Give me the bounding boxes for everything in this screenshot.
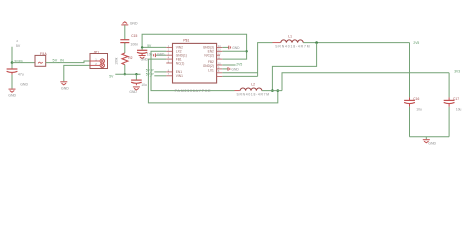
wire LX2 down to L2 [151, 51, 235, 90]
ground input [9, 88, 16, 90]
wire VIN2 overhead to EN2 [142, 34, 247, 59]
pin names right [203, 46, 214, 73]
svg-text:2: 2 [16, 39, 18, 43]
pin numbers left [168, 46, 170, 76]
svg-text:P$1: P$1 [183, 39, 189, 43]
wire 3V3 rail down [448, 73, 450, 98]
pin pad 2 JP1 [100, 63, 104, 67]
svg-text:5V_P: 5V_P [146, 72, 154, 76]
net stub EN1 [154, 71, 166, 73]
pin numbers right [218, 46, 221, 73]
net stub VIN1 [154, 75, 166, 77]
capacitor C17 10u [448, 97, 450, 100]
wire L1 to 2V5 corner [303, 42, 409, 44]
capacitor 47u input [11, 63, 13, 69]
svg-text:L1: L1 [288, 34, 292, 38]
ground above C15 [121, 24, 128, 26]
svg-text:5V: 5V [109, 74, 114, 78]
capacitor C16 10u [409, 97, 411, 100]
pin pad 1 JP1 [100, 59, 104, 63]
pin names left [176, 46, 187, 78]
node cap C13 tap [135, 73, 137, 75]
svg-text:GND: GND [8, 94, 16, 98]
wire cap to ground [11, 75, 13, 89]
ground GND(2) right [222, 68, 227, 70]
wire LX1b [222, 75, 257, 77]
wire fuse to JP1 [46, 61, 90, 63]
svg-text:2V5: 2V5 [236, 62, 242, 66]
svg-text:GND: GND [428, 142, 436, 146]
svg-text:5V: 5V [16, 44, 21, 48]
svg-text:GND: GND [20, 83, 28, 87]
svg-text:JP1: JP1 [93, 50, 99, 54]
wire 5V input vertical [11, 47, 13, 63]
wire L2 out up to 3V3 rail [282, 73, 449, 91]
capacitor C14 10u [141, 47, 143, 50]
svg-text:10u: 10u [141, 83, 147, 87]
ground C14 [139, 55, 146, 57]
svg-text:GND: GND [232, 46, 240, 50]
svg-text:R2: R2 [128, 56, 132, 60]
svg-text:C15: C15 [131, 34, 137, 38]
svg-text:2V5: 2V5 [413, 41, 419, 45]
wire LX1 [222, 72, 257, 74]
svg-text:SRN4018-4R7M: SRN4018-4R7M [237, 93, 270, 97]
svg-text:LX1: LX1 [208, 69, 214, 73]
svg-text:C17: C17 [453, 97, 459, 101]
svg-text:GND: GND [141, 57, 149, 61]
svg-text:10u: 10u [416, 107, 422, 111]
wire gnd to C15 [124, 25, 126, 39]
svg-text:GND: GND [130, 22, 138, 26]
svg-text:100n: 100n [130, 42, 138, 46]
svg-text:GND(2): GND(2) [203, 64, 214, 68]
node 5V left [124, 73, 126, 75]
wire 2V5 rail down [409, 43, 411, 98]
wire EN2 join [245, 50, 247, 52]
svg-text:100k: 100k [114, 57, 118, 65]
ground C13 [133, 86, 140, 88]
svg-text:GND: GND [231, 67, 239, 71]
inductor L1 [273, 42, 281, 44]
svg-text:10u: 10u [456, 107, 462, 111]
svg-text:GND: GND [157, 53, 165, 57]
fuse F1 [35, 55, 46, 66]
svg-text:VIN1: VIN1 [176, 74, 183, 78]
svg-text:C16: C16 [413, 97, 419, 101]
svg-text:F5A: F5A [40, 52, 48, 56]
wire FB link down-left [272, 43, 316, 91]
wire JP1 pin2 to ground [64, 65, 90, 81]
node L1 out [315, 41, 318, 44]
wire ground bottom [410, 136, 450, 138]
svg-text:L2: L2 [251, 82, 255, 86]
wire C15 to R2 [124, 43, 126, 53]
pin stubs right [217, 47, 223, 76]
wire 5V node horizontal [115, 73, 140, 75]
wire C16 down [409, 107, 411, 137]
ground JP1 [60, 81, 67, 83]
IC P$1 PAM2306 [173, 43, 217, 83]
svg-text:NC(1): NC(1) [176, 61, 185, 65]
inductor L2 [235, 90, 240, 92]
node input junction [11, 61, 14, 64]
wire main input to fuse [12, 62, 35, 64]
svg-text:SRN4018-4R7M: SRN4018-4R7M [275, 44, 310, 48]
svg-text:PAM2306AYPKE: PAM2306AYPKE [175, 89, 212, 93]
wire LX1 vertical to L1 [258, 43, 273, 77]
svg-text:3V3: 3V3 [454, 70, 460, 74]
svg-text:GND: GND [129, 90, 137, 94]
wire VIN2 to pin [142, 46, 166, 48]
node FB1 tap [277, 89, 280, 92]
net stub FB2 2V5 [222, 64, 235, 66]
svg-text:47u: 47u [18, 73, 24, 77]
node FB link [271, 89, 274, 92]
ground GND(3) right [222, 46, 228, 48]
connector JP1 [90, 54, 108, 69]
wire C17 down [448, 107, 450, 137]
resistor R2 100k [122, 53, 128, 65]
pin stubs left [166, 47, 172, 75]
svg-text:N/C(2): N/C(2) [204, 54, 213, 58]
wire R2 to 5V node [124, 65, 126, 75]
ground GND(1) left of IC [156, 54, 166, 56]
svg-text:10u: 10u [147, 53, 153, 57]
ground bottom right [423, 139, 430, 141]
capacitor C13 10u lower [135, 74, 137, 80]
wire FB1 down and under IC [148, 59, 277, 103]
node VIN2 [141, 46, 143, 48]
wire L2 out [262, 90, 282, 92]
svg-text:12: 12 [218, 54, 221, 56]
svg-text:GND: GND [61, 86, 69, 90]
